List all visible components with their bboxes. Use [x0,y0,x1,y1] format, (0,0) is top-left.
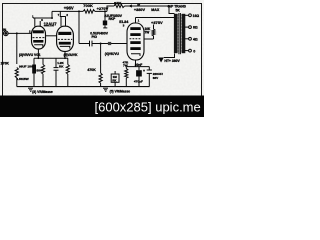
EL34 grid dashes [130,38,142,40]
V1b grid dashes [58,38,72,40]
wire plate to OPT [136,17,175,19]
wire V1a cathode drop [37,49,39,58]
transformer core [178,13,180,54]
triode V1b envelope [57,26,74,51]
svg-text:5K: 5K [176,9,181,13]
svg-text:[600x285] upic.me: [600x285] upic.me [95,100,201,115]
node filter cap [104,10,106,12]
svg-text:MAX: MAX [151,8,160,12]
svg-text:7W: 7W [123,64,128,68]
node dot A [51,17,53,19]
capacitor 30nF [138,67,140,71]
svg-text:+375V: +375V [151,20,163,25]
svg-text:(4)VK/VU: (4)VK/VU [105,52,120,56]
svg-text:470uF: 470uF [134,80,143,84]
wire coupling to grid [79,43,90,45]
wire input to grid V1a [8,32,31,34]
wire interstage A-B [45,35,56,37]
transformer OPT secondary [182,14,186,53]
svg-text:7W: 7W [145,31,150,35]
arrow marker [128,4,132,7]
wire B+ line [125,5,170,7]
svg-text:RK: RK [112,79,116,83]
text labels [1,1,200,95]
watermark bar [0,96,204,118]
wire plate line A [33,11,52,18]
wire ground rail [17,86,150,88]
wire filter cap drop [104,11,106,20]
wire grid-leak drop [16,33,18,64]
V1b lower bar [59,42,71,45]
wire tap 16 ohm [184,14,188,16]
resistor 470K [99,73,102,83]
svg-text:(3) VR/Masse: (3) VR/Masse [32,90,53,94]
ground symbol mid [103,87,108,89]
V1a plate pins [34,18,36,27]
svg-text:700K: 700K [83,3,93,8]
wire tap 8 ohm [184,26,188,28]
svg-text:+: + [143,69,145,73]
svg-text:63V: 63V [153,76,159,80]
svg-text:IN: IN [3,28,7,32]
EL34 bar 4 [130,47,140,50]
svg-text:RKP: RKP [109,17,117,21]
svg-text:1.5K/5W: 1.5K/5W [17,77,29,81]
capacitor filter (electrolytic) [103,21,107,26]
wire grid-leak EL34 drop [100,44,102,74]
V1b cathode [60,46,70,48]
V1b plate [58,32,71,35]
triode V1a envelope [32,26,46,49]
resistor 1.2K [67,58,69,64]
wire cathode bus V1 [34,57,68,59]
svg-text:+270V: +270V [97,6,109,11]
resistor 700K [83,10,95,14]
wire primary bottom to HT [164,54,175,58]
EL34 cathode [131,54,140,56]
EL34 plate bar [130,27,140,30]
wire supply rail [52,10,83,12]
pentode EL34 envelope [127,23,144,60]
resistor 270K [15,68,18,79]
wire rail step up [107,6,114,11]
svg-text:30nF: 30nF [135,63,142,67]
capacitor 96UF electrolytic [33,58,35,64]
svg-text:270K: 270K [1,61,10,65]
input jack J1 [4,31,9,36]
V1a grid dashes [33,37,45,39]
wire tap 4 ohm [184,38,188,40]
svg-text:(5)VA/VK: (5)VA/VK [64,53,78,57]
svg-text:+380V: +380V [134,8,146,12]
svg-text:50V: 50V [36,69,42,73]
resistor cathode 47R [125,67,127,69]
svg-text:16Ω: 16Ω [193,14,200,18]
svg-text:97K: 97K [114,1,121,6]
svg-text:+96V: +96V [64,6,74,11]
wire coupling drop [78,11,80,43]
svg-text:97: 97 [137,3,140,7]
V1b top pins [60,17,62,27]
svg-text:470K: 470K [87,68,96,72]
node grid EL34 [100,43,102,45]
svg-text:96UF 10V: 96UF 10V [19,65,34,69]
V1b pin bar [60,16,66,18]
resistor 1K5 [42,58,44,64]
svg-text:PIO: PIO [92,35,98,39]
capacitor 220UF [148,67,150,70]
svg-text:(5) VR/Masse: (5) VR/Masse [110,89,131,93]
EL34 bar 2 [130,33,140,36]
EL34 bar 3 [130,41,140,44]
svg-text:RK: RK [59,64,64,68]
component box 1M [111,74,119,82]
ground symbol left [28,87,33,89]
node dot rail [78,10,80,12]
resistor 97K [114,4,125,7]
capacitor bypass [55,58,57,67]
svg-text:8Ω: 8Ω [193,26,198,30]
svg-text:HT+ 380V: HT+ 380V [164,59,180,63]
node grid junction [16,32,18,34]
capacitor coupling 0.5UF [89,41,91,47]
V1a plate [33,30,44,33]
border frame [3,4,202,97]
wire cathode bus [126,66,149,68]
V1a lower bar [33,40,43,43]
EL34 plate pin [135,18,137,24]
resistor grid stopper [108,42,111,45]
wire EL34 cathode drop [135,60,137,67]
V1a cathode [34,45,43,47]
wire tap 0 [184,50,188,52]
svg-text:(3)VR/VU VG1: (3)VR/VU VG1 [19,53,41,57]
svg-text:4Ω: 4Ω [193,38,198,42]
schematic background [0,0,204,100]
resistor screen 10K [144,38,154,40]
svg-text:0: 0 [193,49,195,53]
HT supply triangle [158,58,164,63]
wire V1b cathode drop [64,51,66,58]
transformer OPT primary [174,14,178,53]
